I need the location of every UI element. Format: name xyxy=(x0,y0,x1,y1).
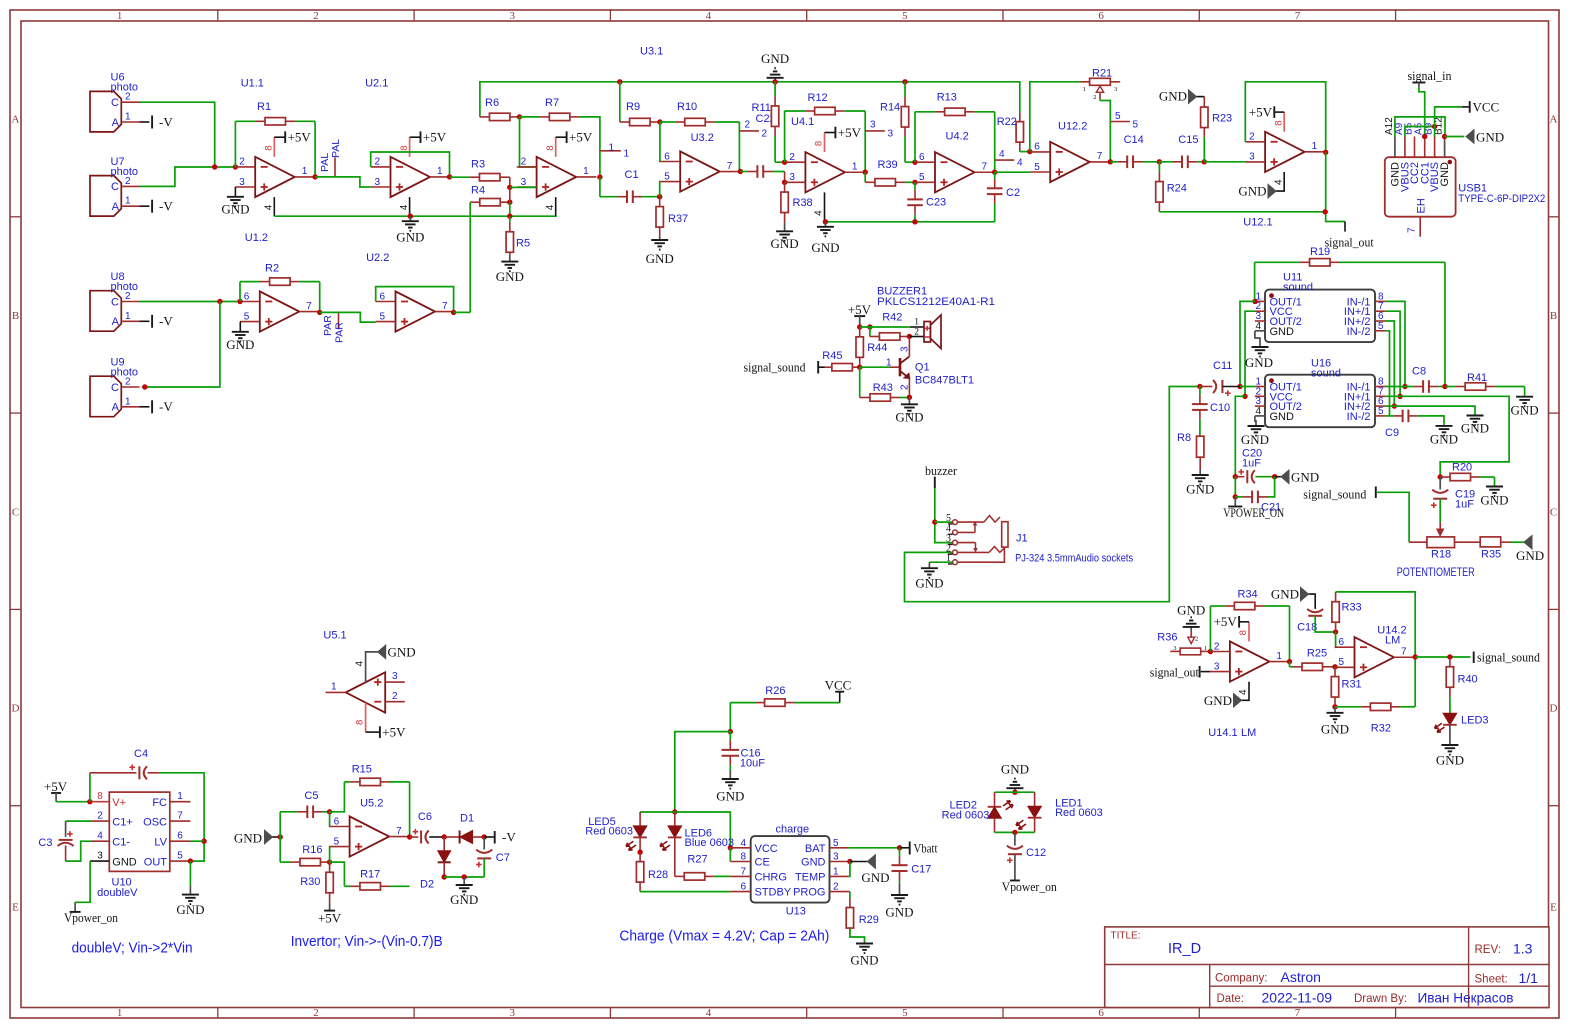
svg-text:D: D xyxy=(12,703,20,715)
svg-text:LV: LV xyxy=(154,837,167,849)
svg-text:Q1: Q1 xyxy=(915,362,930,374)
node R42 tap xyxy=(867,324,872,329)
svg-text:GND: GND xyxy=(850,953,878,968)
node C16/R26 xyxy=(728,729,733,734)
svg-text:A: A xyxy=(12,114,20,126)
svg-text:A: A xyxy=(112,316,120,328)
svg-text:2: 2 xyxy=(1249,132,1255,143)
svg-text:C2: C2 xyxy=(1006,187,1020,199)
net label signal_sound (potentiometer) xyxy=(1375,487,1377,499)
node buzzer pin2 xyxy=(907,334,912,339)
net stub 5 xyxy=(1110,121,1130,123)
svg-text:GND: GND xyxy=(1439,162,1451,187)
svg-text:GND: GND xyxy=(811,240,839,255)
svg-text:6: 6 xyxy=(334,816,340,827)
node U4.1 output xyxy=(863,170,868,175)
svg-text:1/1: 1/1 xyxy=(1519,970,1539,986)
svg-text:1: 1 xyxy=(302,166,308,177)
svg-text:signal_sound: signal_sound xyxy=(1303,487,1366,502)
svg-text:+5V: +5V xyxy=(288,130,312,145)
node U4.1 in- xyxy=(782,160,787,165)
svg-text:R31: R31 xyxy=(1342,679,1362,691)
node D2 bottom xyxy=(442,874,447,879)
svg-text:R40: R40 xyxy=(1458,674,1478,686)
wire -V bottom row xyxy=(444,876,484,878)
node U11 pin1 xyxy=(1252,299,1257,304)
svg-text:photo: photo xyxy=(111,367,139,379)
svg-text:4: 4 xyxy=(999,149,1005,160)
svg-text:+5V: +5V xyxy=(423,130,447,145)
svg-text:5: 5 xyxy=(1378,321,1384,332)
net label signal_out xyxy=(1344,222,1346,232)
svg-text:1: 1 xyxy=(609,143,615,154)
svg-text:B: B xyxy=(12,310,19,322)
op-amp U2.1 xyxy=(391,157,431,197)
svg-text:buzzer: buzzer xyxy=(925,463,958,478)
svg-text:6: 6 xyxy=(177,831,183,842)
svg-text:U14.1: U14.1 xyxy=(1208,727,1237,739)
svg-text:7: 7 xyxy=(396,826,402,837)
svg-text:5: 5 xyxy=(1378,406,1384,417)
svg-text:CE: CE xyxy=(755,857,770,869)
svg-text:8: 8 xyxy=(545,146,556,151)
resistor R3 xyxy=(450,176,470,178)
resistor R31 xyxy=(1334,667,1336,677)
node U14.1 output xyxy=(1287,659,1292,664)
svg-text:R5: R5 xyxy=(516,238,530,250)
power pin 4 U12.1 ground arrow xyxy=(1276,172,1284,191)
node U16 pin2 xyxy=(1242,394,1247,399)
svg-text:6: 6 xyxy=(1098,10,1104,22)
svg-text:5: 5 xyxy=(244,311,250,322)
op-amp U14.2 xyxy=(1355,637,1395,677)
svg-text:1: 1 xyxy=(125,112,131,123)
power +5V inverted under R30 xyxy=(329,903,331,911)
power flag VCC xyxy=(839,692,841,703)
svg-text:1: 1 xyxy=(331,682,337,693)
capacitor C20 polarized xyxy=(1235,476,1244,478)
node R40 tap xyxy=(1447,654,1452,659)
wire C5 node to U5.2 in- xyxy=(329,812,331,827)
svg-text:U2.2: U2.2 xyxy=(366,252,389,264)
svg-text:1: 1 xyxy=(1083,86,1086,93)
svg-text:U4.1: U4.1 xyxy=(791,116,814,128)
svg-text:GND: GND xyxy=(1245,355,1273,370)
svg-text:E: E xyxy=(12,902,19,914)
node V+ / C4 xyxy=(87,799,92,804)
wire B12 to GND symbol xyxy=(1445,136,1465,138)
svg-text:GND: GND xyxy=(716,789,744,804)
wire U12.2 feedback to R21 xyxy=(1030,82,1081,152)
svg-text:U5.2: U5.2 xyxy=(360,798,383,810)
svg-text:2: 2 xyxy=(833,882,839,893)
node B12 gnd tie xyxy=(1442,134,1447,139)
svg-text:4: 4 xyxy=(1238,689,1249,695)
svg-text:6: 6 xyxy=(244,291,250,302)
wire U10 GND to Vpower_on xyxy=(75,861,90,902)
svg-text:R3: R3 xyxy=(471,159,485,171)
svg-text:1: 1 xyxy=(177,791,183,802)
ground under D2/C7 xyxy=(463,877,465,885)
node C11 / U16 pin1 xyxy=(1237,384,1242,389)
node C21 left xyxy=(1233,494,1238,499)
node Vbatt/C17 xyxy=(897,845,902,850)
svg-text:R45: R45 xyxy=(822,350,842,362)
net label -V xyxy=(484,836,495,838)
svg-text:C: C xyxy=(12,506,19,518)
wire R29 to GND xyxy=(850,929,865,942)
node U16 pin7 net xyxy=(1397,394,1402,399)
wire LED top rail xyxy=(995,791,1035,793)
wire output to signal_sound xyxy=(1415,656,1470,658)
wire R19 right feedback xyxy=(1444,262,1446,386)
USB1 pin1 mark xyxy=(1448,160,1453,165)
wire +5V to U10 V+ xyxy=(56,801,90,803)
svg-text:TYPE-C-6P-DIP2X2: TYPE-C-6P-DIP2X2 xyxy=(1458,193,1545,205)
node U3.1 output xyxy=(597,174,602,179)
wire U16 pin1 row xyxy=(1240,386,1255,388)
node R9/R10 xyxy=(657,119,662,124)
wire U16 pin6 to GND xyxy=(1385,406,1475,414)
svg-text:GND: GND xyxy=(1186,482,1214,497)
svg-text:2: 2 xyxy=(313,1007,319,1019)
wire C21 right up to C20 net xyxy=(1267,477,1275,497)
node U16 pin6 net xyxy=(1392,403,1397,408)
power pin 4 U5.1 ground arrow xyxy=(366,652,378,683)
svg-text:C15: C15 xyxy=(1178,134,1198,146)
resistor R39 xyxy=(865,181,875,183)
svg-text:4: 4 xyxy=(706,10,712,22)
node LED5/R28 xyxy=(637,850,642,855)
svg-text:R11: R11 xyxy=(752,102,771,114)
wire U4.2 feedback to R13 xyxy=(914,112,916,162)
wire node to U14.2 in- xyxy=(1334,632,1337,647)
svg-text:7: 7 xyxy=(177,811,183,822)
svg-text:GND: GND xyxy=(885,905,913,920)
op-amp U1.2 xyxy=(260,291,300,331)
svg-text:3: 3 xyxy=(510,10,516,22)
node R4 out xyxy=(507,200,512,205)
capacitor C16 xyxy=(729,732,731,741)
svg-text:3: 3 xyxy=(1173,645,1176,652)
wire R6 node to U3.1 in- xyxy=(520,117,537,167)
svg-text:+5V: +5V xyxy=(1214,614,1238,629)
svg-text:R37: R37 xyxy=(668,213,688,225)
svg-text:3: 3 xyxy=(1214,661,1220,672)
wire U16 pin7 long to R20 xyxy=(1385,396,1509,477)
node U4.2 output xyxy=(992,170,997,175)
resistor R6 xyxy=(480,116,490,118)
LED2 xyxy=(994,792,996,807)
svg-text:3: 3 xyxy=(521,177,527,188)
svg-text:C6: C6 xyxy=(418,811,432,823)
U11 pin 5 IN-/2 xyxy=(1375,330,1385,332)
wire R9 node to U3.2 in- xyxy=(659,122,662,162)
resistor R29 xyxy=(848,891,850,893)
svg-text:3: 3 xyxy=(789,172,795,183)
svg-text:GND: GND xyxy=(1430,432,1458,447)
IC U11 sound xyxy=(1265,290,1375,343)
svg-text:B: B xyxy=(1550,310,1557,322)
node U16 pin8 net xyxy=(1402,384,1407,389)
svg-text:PAL: PAL xyxy=(330,139,342,158)
USB1 pin B12 GND xyxy=(1444,137,1446,158)
svg-text:R17: R17 xyxy=(360,869,380,881)
node R6/R7 xyxy=(517,114,522,119)
svg-text:7: 7 xyxy=(982,161,988,172)
ground under R8 xyxy=(1199,469,1201,475)
wire R33 top feedback xyxy=(1336,592,1416,657)
wire C20 to C21 xyxy=(1234,477,1236,497)
svg-text:6: 6 xyxy=(1098,1007,1104,1019)
ground arrow at C20 xyxy=(1275,476,1281,478)
power pin 4 U4.1 xyxy=(824,192,826,221)
svg-text:+5V: +5V xyxy=(838,125,862,140)
svg-text:REV:: REV: xyxy=(1475,944,1501,956)
svg-text:-V: -V xyxy=(159,114,173,129)
wire U11 IN+/1 to U16 IN+/1 xyxy=(1385,311,1400,396)
svg-text:C1: C1 xyxy=(625,169,639,181)
wire R4 to bus xyxy=(509,202,511,216)
svg-text:U1.1: U1.1 xyxy=(241,78,264,90)
svg-text:signal_out: signal_out xyxy=(1150,665,1199,680)
U10 pin 6 LV xyxy=(170,840,191,842)
svg-text:sound: sound xyxy=(1283,281,1313,293)
svg-text:1: 1 xyxy=(833,866,839,877)
capacitor C17 xyxy=(899,848,901,856)
power pin 4 U3.1 xyxy=(555,197,557,216)
wire R4 left to U2.2 output xyxy=(469,202,471,312)
svg-text:IN-/2: IN-/2 xyxy=(1347,411,1371,423)
U13 pin 4 VCC xyxy=(730,847,750,849)
U11 pin 7 IN+/1 xyxy=(1375,310,1385,312)
resistor R37 xyxy=(659,197,661,207)
svg-text:U4.2: U4.2 xyxy=(946,131,969,143)
wire signal_in to CC1 xyxy=(1419,87,1425,136)
svg-text:GND: GND xyxy=(1321,722,1349,737)
svg-text:1: 1 xyxy=(125,396,131,407)
LED1 xyxy=(1034,792,1036,806)
svg-text:GND: GND xyxy=(496,269,524,284)
svg-text:OSC: OSC xyxy=(143,817,167,829)
svg-text:GND: GND xyxy=(388,645,416,660)
svg-text:R41: R41 xyxy=(1467,372,1487,384)
op-amp U3.1 xyxy=(537,157,577,197)
svg-text:sound: sound xyxy=(1311,367,1341,379)
capacitor C22 xyxy=(740,171,748,173)
capacitor C8 xyxy=(1405,386,1414,388)
wire J1 net to C11 node xyxy=(905,387,1200,602)
op-amp U12.1 xyxy=(1265,132,1305,172)
node Q1 base net xyxy=(857,365,862,370)
U10 pin 2 C1+ xyxy=(91,820,109,822)
resistor R1 xyxy=(234,121,236,167)
node U4.1 in+ / R38 xyxy=(782,180,787,185)
svg-text:Blue 0603: Blue 0603 xyxy=(685,837,735,849)
svg-text:doubleV; Vin->2*Vin: doubleV; Vin->2*Vin xyxy=(72,940,193,957)
wire U11 pin1 to U16 pin1 xyxy=(1240,301,1255,386)
wire GND pins tie xyxy=(1395,117,1445,137)
LED6 xyxy=(674,812,676,826)
svg-text:PAR: PAR xyxy=(333,322,345,343)
resistor R43 xyxy=(859,367,861,397)
wire BAT to Vbatt xyxy=(848,847,899,849)
potentiometer R36 xyxy=(1170,650,1180,652)
IC U10 box xyxy=(109,792,170,871)
U10 pin 7 OSC xyxy=(170,820,191,822)
resistor R32 xyxy=(1335,706,1361,708)
capacitor C7 polarized xyxy=(483,837,485,850)
label PAL stub xyxy=(334,158,336,177)
buzzer BUZZER1 xyxy=(924,322,931,343)
svg-text:7: 7 xyxy=(1401,646,1407,657)
node U1.1 output xyxy=(312,174,317,179)
svg-text:5: 5 xyxy=(1133,120,1139,131)
node +5V / R44 xyxy=(857,324,862,329)
svg-text:-V: -V xyxy=(502,830,516,845)
wire top bus xyxy=(480,82,1020,117)
resistor R7 xyxy=(520,116,540,118)
svg-text:3: 3 xyxy=(888,129,894,140)
node GND/C5/R16 xyxy=(278,834,283,839)
svg-text:PROG: PROG xyxy=(793,887,825,899)
svg-text:8: 8 xyxy=(355,720,366,725)
svg-text:R14: R14 xyxy=(880,102,900,114)
op-amp U5.2 xyxy=(350,816,390,856)
resistor R38 xyxy=(784,182,786,192)
wire VCC to CE xyxy=(729,848,731,862)
svg-text:BAT: BAT xyxy=(805,843,826,855)
svg-text:8: 8 xyxy=(97,791,103,802)
svg-text:GND: GND xyxy=(1177,603,1205,618)
svg-text:4: 4 xyxy=(1273,179,1284,185)
node U6/U7 junction xyxy=(212,164,217,169)
wire R15 down to output xyxy=(409,782,411,837)
svg-text:+5V: +5V xyxy=(44,779,68,794)
net stub 1 xyxy=(600,150,621,152)
svg-text:C: C xyxy=(111,296,119,308)
node U1.2 in- xyxy=(237,299,242,304)
resistor R45 xyxy=(818,366,824,368)
svg-text:GND: GND xyxy=(1238,184,1266,199)
node OUT junction xyxy=(188,858,193,863)
USB1 pin B9 VBUS xyxy=(1434,137,1436,158)
wire R10 to U3.2 output xyxy=(738,122,740,172)
svg-text:5: 5 xyxy=(334,836,340,847)
U11 pin 1 OUT/1 xyxy=(1255,300,1265,302)
ground above R36 xyxy=(1190,627,1192,631)
node U9 pin xyxy=(142,384,147,389)
svg-text:doubleV: doubleV xyxy=(97,887,138,899)
svg-text:Charge (Vmax = 4.2V; Cap = 2Ah: Charge (Vmax = 4.2V; Cap = 2Ah) xyxy=(619,928,829,945)
wire U9.C up to U8 wire xyxy=(145,302,220,388)
svg-text:CHRG: CHRG xyxy=(755,871,787,883)
node U13 VCC pin xyxy=(728,845,733,850)
ground arrow at C18 xyxy=(1309,594,1316,609)
wire R16 node to U5.2 in+ xyxy=(329,847,331,863)
svg-text:5: 5 xyxy=(177,851,183,862)
svg-text:1uF: 1uF xyxy=(1455,499,1474,511)
resistor R15 feedback xyxy=(330,782,345,812)
svg-text:4: 4 xyxy=(814,210,825,216)
svg-text:Invertor; Vin->-(Vin-0.7)B: Invertor; Vin->-(Vin-0.7)B xyxy=(291,933,443,950)
wire U8/U9 to U1.2 in- xyxy=(140,301,241,303)
ground under R5 xyxy=(509,255,511,262)
U13 pin 7 CHRG xyxy=(730,875,750,877)
svg-text:GND: GND xyxy=(895,410,923,425)
svg-text:8: 8 xyxy=(740,852,746,863)
resistor R28 xyxy=(639,852,641,861)
svg-text:7: 7 xyxy=(727,161,733,172)
svg-text:R23: R23 xyxy=(1212,113,1232,125)
node U12.1 output xyxy=(1323,150,1328,155)
svg-text:2: 2 xyxy=(899,384,910,390)
svg-text:LED3: LED3 xyxy=(1461,715,1489,727)
svg-text:1: 1 xyxy=(1204,645,1207,652)
svg-text:8: 8 xyxy=(399,146,410,151)
node VCC vbus tie xyxy=(1432,124,1437,129)
resistor R42 xyxy=(869,327,871,337)
U16 pin 3 OUT/2 xyxy=(1255,405,1265,407)
power pin 8 +5V U14.1 xyxy=(1248,622,1250,642)
svg-text:4: 4 xyxy=(1017,158,1023,169)
svg-text:6: 6 xyxy=(1339,637,1345,648)
svg-text:5: 5 xyxy=(1339,657,1345,668)
svg-text:-V: -V xyxy=(159,199,173,214)
svg-text:Red 0603: Red 0603 xyxy=(1055,807,1103,819)
svg-text:4: 4 xyxy=(706,1007,712,1019)
svg-text:2: 2 xyxy=(1093,94,1096,101)
wire R14 to U4.2 in- xyxy=(905,161,915,163)
svg-text:PAR: PAR xyxy=(322,315,334,336)
svg-text:R21: R21 xyxy=(1092,68,1112,80)
svg-text:R27: R27 xyxy=(687,854,707,866)
svg-text:+5V: +5V xyxy=(382,725,406,740)
op-amp U4.1 xyxy=(805,152,845,192)
svg-text:2: 2 xyxy=(313,10,319,22)
svg-text:8: 8 xyxy=(264,146,275,151)
op-amp U3.2 xyxy=(680,151,720,191)
svg-text:1: 1 xyxy=(886,358,892,369)
svg-text:BC847BLT1: BC847BLT1 xyxy=(915,375,974,387)
svg-text:7: 7 xyxy=(1295,10,1301,22)
svg-text:6: 6 xyxy=(1034,142,1040,153)
svg-text:6: 6 xyxy=(380,291,386,302)
svg-text:GND: GND xyxy=(801,857,826,869)
wire R21 wiper to U12.2 output xyxy=(1100,101,1110,162)
svg-text:Vpower_on: Vpower_on xyxy=(1002,879,1057,894)
svg-text:-V: -V xyxy=(159,399,173,414)
svg-text:7: 7 xyxy=(442,301,448,312)
svg-text:3: 3 xyxy=(97,851,103,862)
svg-text:6: 6 xyxy=(919,152,925,163)
LED5 xyxy=(639,812,641,826)
wire U4.1 feedback to R12 xyxy=(784,111,786,162)
svg-text:R20: R20 xyxy=(1452,462,1472,474)
capacitor C9 xyxy=(1390,415,1394,417)
resistor R26 xyxy=(730,702,755,704)
net label Vbatt xyxy=(900,847,910,849)
svg-text:5: 5 xyxy=(902,10,908,22)
resistor R27 xyxy=(675,875,684,877)
node U12.2 in- xyxy=(1027,149,1032,154)
svg-text:C: C xyxy=(111,382,119,394)
svg-text:4: 4 xyxy=(97,831,103,842)
svg-text:A: A xyxy=(1550,114,1558,126)
svg-text:PKLCS1212E40A1-R1: PKLCS1212E40A1-R1 xyxy=(877,296,995,308)
U11 pin 2 VCC xyxy=(1255,310,1265,312)
resistor R41 xyxy=(1445,386,1456,388)
